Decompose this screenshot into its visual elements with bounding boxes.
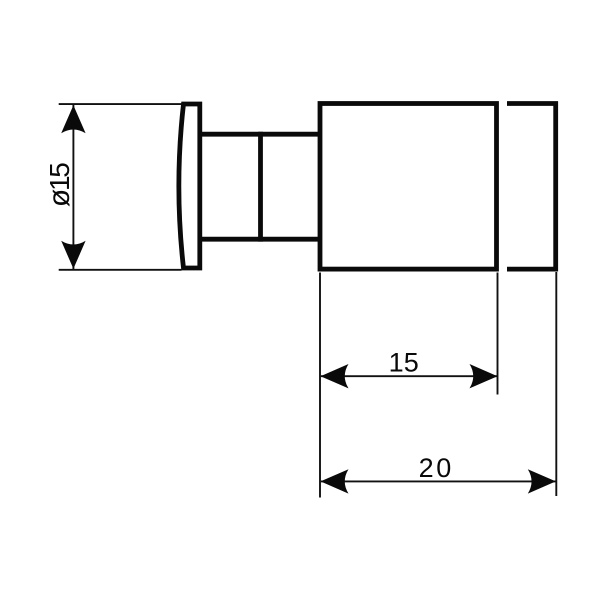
svg-text:ø15: ø15 <box>43 163 76 207</box>
svg-text:20: 20 <box>419 453 454 483</box>
svg-text:15: 15 <box>389 348 419 378</box>
